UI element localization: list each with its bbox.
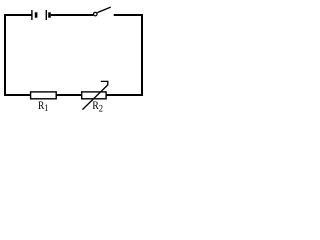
wire: switch to top-right corner bbox=[114, 14, 142, 16]
battery B1 cell1 short thick plate bbox=[35, 12, 38, 17]
wire: R1 to R2 bbox=[56, 94, 82, 96]
rheostat R2 arrowhead bbox=[101, 81, 108, 85]
wire: right side (top-right corner down to bottom-right corner) bbox=[141, 14, 143, 96]
battery B1 cell1 long plate bbox=[31, 10, 33, 20]
resistor R1 box bbox=[31, 92, 57, 99]
battery B1 cell2 short thick plate bbox=[48, 12, 51, 17]
rheostat R2 arrow diagonal bbox=[82, 85, 107, 110]
switch S pivot circle bbox=[94, 12, 98, 16]
wire: top-left segment from corner to battery bbox=[4, 14, 32, 16]
wire: bottom-left corner to R1 bbox=[4, 94, 31, 96]
svg-text:R1: R1 bbox=[38, 100, 48, 114]
wire: R2 to bottom-right corner bbox=[106, 94, 143, 96]
wire: left side (top-left corner down to bottom-left corner) bbox=[4, 15, 6, 95]
battery B1 cell2 long plate bbox=[45, 10, 47, 20]
rheostat R2 box bbox=[82, 92, 106, 99]
switch S blade (open) bbox=[97, 7, 110, 13]
wire: battery to switch bbox=[51, 14, 94, 16]
